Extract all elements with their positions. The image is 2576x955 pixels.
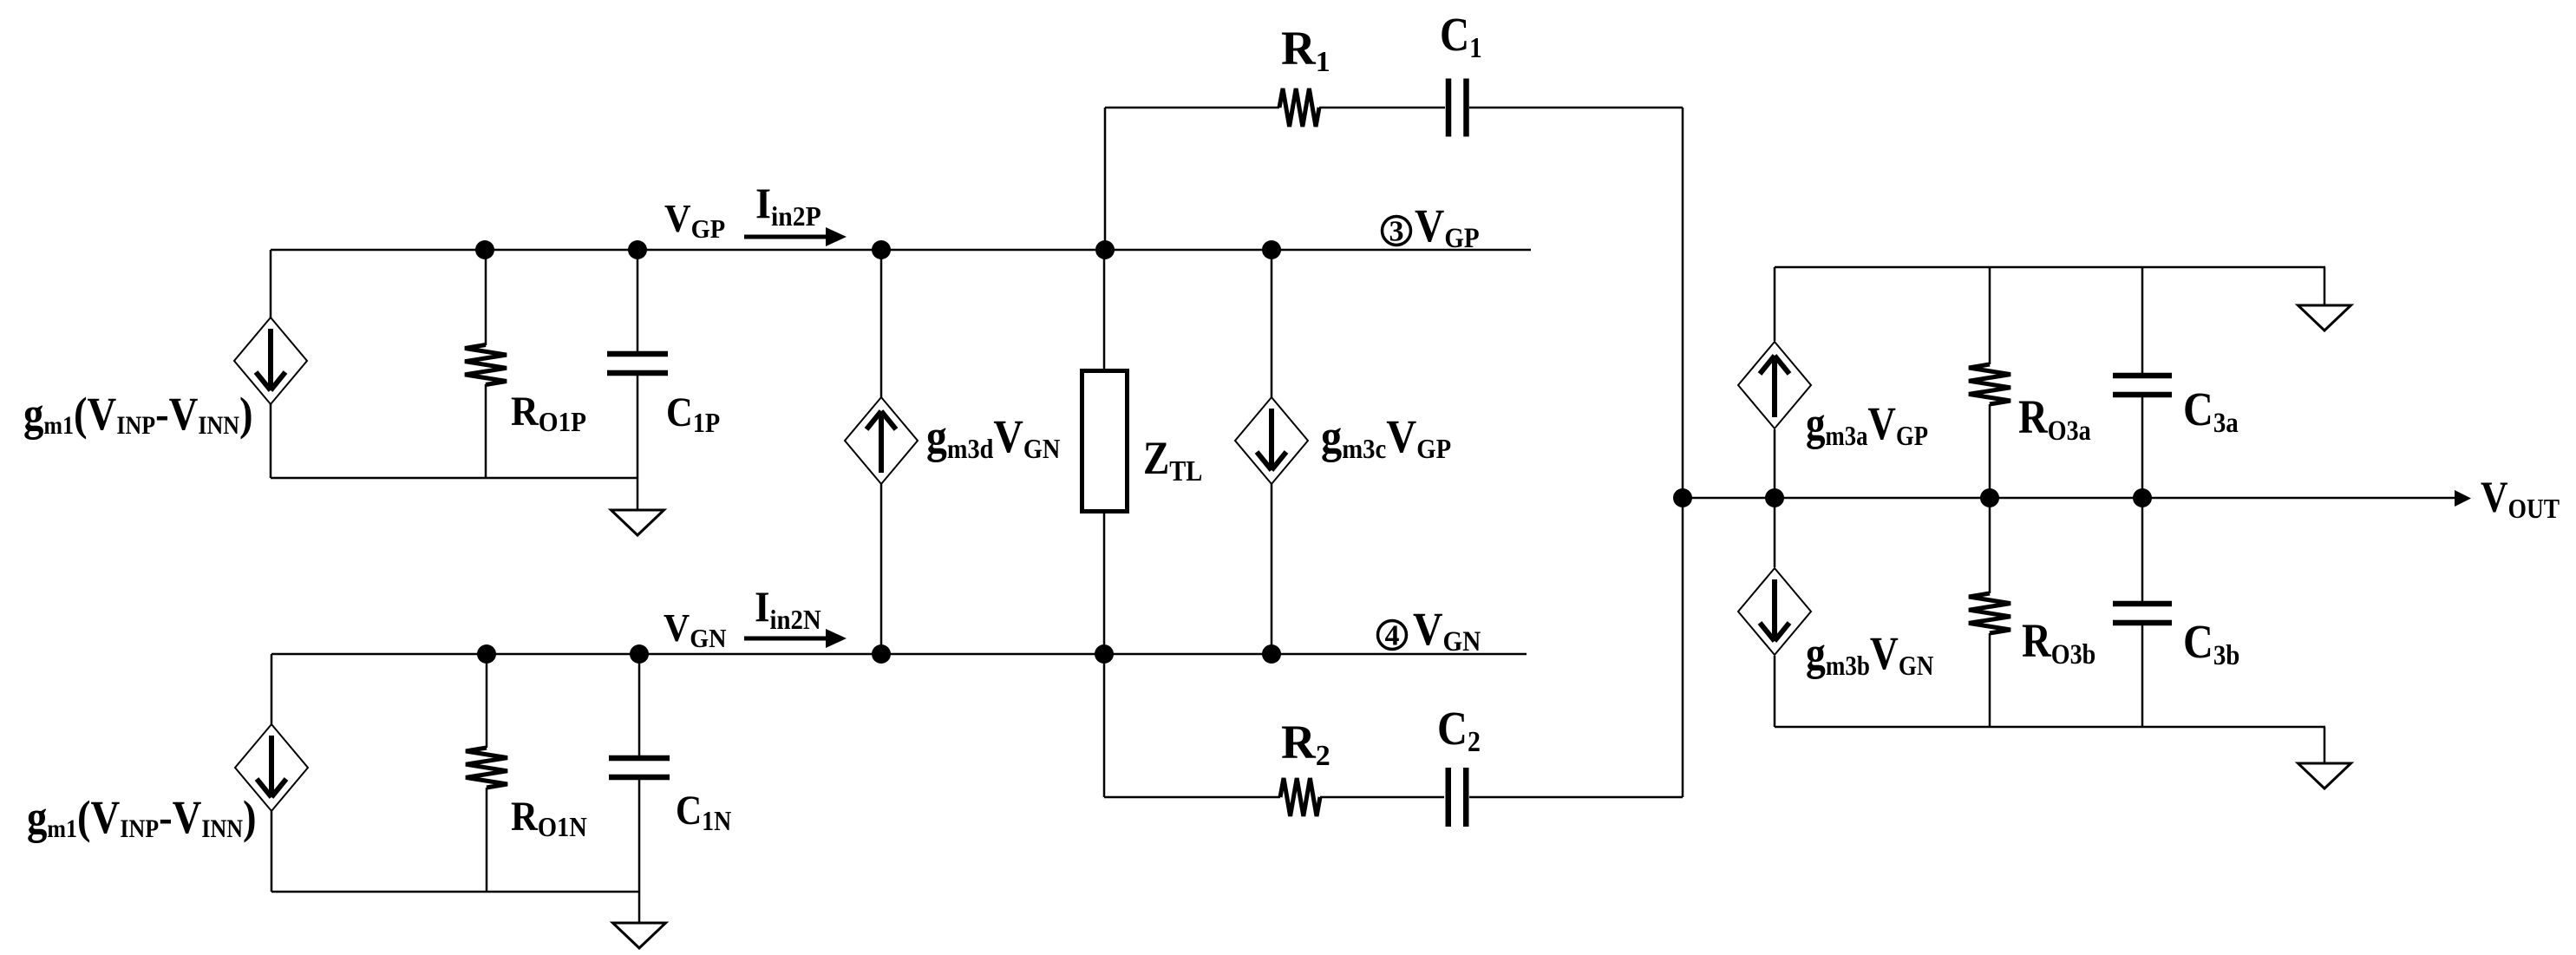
capacitor C_1P <box>607 351 668 357</box>
wire gm3d top lead <box>880 250 883 397</box>
svg-text:3: 3 <box>1389 216 1404 248</box>
node VGP/C_1P <box>628 240 647 259</box>
wire gm3c bottom lead <box>1271 484 1273 654</box>
wire bottom loop middle segment <box>1320 796 1444 799</box>
controlled current source G1 gm1(VINP-VINN) upper, arrow down <box>234 317 307 404</box>
wire R_O3b top lead <box>1989 498 1991 593</box>
label gm1(VINP-VINN) upper <box>23 388 253 441</box>
label gm3a*VGP <box>1806 397 1928 451</box>
node number 4 (circled) <box>1378 620 1407 652</box>
svg-text:4: 4 <box>1385 620 1400 652</box>
node VGN/Z_TL <box>1095 644 1114 664</box>
controlled current source G3 gm3d*VGN, arrow up <box>845 397 918 484</box>
label node V_GN <box>664 605 727 653</box>
label C_1P <box>666 389 720 439</box>
resistor R_O3b <box>1969 593 2010 633</box>
capacitor C2 <box>1446 768 1452 827</box>
ground under C_1P <box>611 478 664 535</box>
label gm1(VINP-VINN) lower <box>27 791 257 844</box>
resistor R_O3a <box>1969 364 2010 404</box>
wire upper gm1 bottom lead <box>270 404 272 478</box>
wire Z_TL bottom lead <box>1103 513 1106 654</box>
controlled current source G5 gm3a*VGP, arrow up <box>1738 342 1811 428</box>
ground under C_1N <box>613 892 666 948</box>
label C_3b <box>2183 616 2239 670</box>
wire C_3a top lead <box>2141 267 2144 373</box>
label R1 <box>1281 22 1330 78</box>
wire R_O1N top lead <box>486 654 488 748</box>
wire R_O3a top lead <box>1989 267 1991 364</box>
label R_O1N <box>511 794 587 843</box>
label node 4 V_GN <box>1413 604 1481 657</box>
wire C_1N bottom lead <box>638 780 641 892</box>
ground right top <box>2298 267 2351 330</box>
ground right bottom <box>2298 727 2351 788</box>
controlled current source G6 gm3b*VGN, arrow down <box>1738 568 1811 655</box>
node VOUT/C_3ab <box>2133 488 2152 507</box>
node VGN/C_1N <box>630 644 649 664</box>
wire bottom loop left segment <box>1104 796 1280 799</box>
wire R_O1N bottom lead <box>486 788 488 892</box>
resistor R_O1P <box>465 345 507 385</box>
controlled current source G2 gm1(VINP-VINN) lower, arrow down <box>235 724 308 811</box>
wire gm3b bottom lead <box>1774 656 1776 727</box>
label node 3 V_GP <box>1415 200 1480 253</box>
label V_OUT <box>2481 474 2560 525</box>
V_OUT arrowhead <box>2455 490 2471 507</box>
wire Z_TL top lead <box>1103 250 1106 369</box>
current flow arrow I_in2N <box>744 629 847 648</box>
wire V_GN net bottom horizontal <box>271 653 1527 656</box>
label node V_GP <box>664 196 725 244</box>
wire bottom loop right segment <box>1469 796 1683 799</box>
capacitor C_1N <box>609 755 670 762</box>
wire top loop left segment <box>1105 107 1279 109</box>
current flow arrow I_in2P <box>744 227 847 246</box>
wire C_1N top lead <box>638 654 641 755</box>
wire lower gm1 bottom lead <box>271 811 273 892</box>
node VOUT/gm3ab <box>1765 488 1784 507</box>
node VGN/gm3d <box>872 644 891 664</box>
wire top loop right segment <box>1469 107 1683 109</box>
label R_O3b <box>2022 616 2095 670</box>
resistor R1 <box>1279 88 1319 127</box>
wire C_1P bottom lead <box>637 376 639 478</box>
label R2 <box>1281 716 1330 772</box>
wire R_O1P top lead <box>485 250 487 345</box>
label I_in2P <box>755 180 821 232</box>
label Z_TL <box>1143 432 1202 487</box>
node VGN/R_O1N <box>477 644 496 664</box>
node VOUT/R_O3ab <box>1980 488 1999 507</box>
wire lower gm1 top lead <box>271 654 273 724</box>
capacitor C_3a <box>2113 373 2172 379</box>
wire gm3c top lead <box>1271 250 1273 397</box>
label I_in2N <box>755 584 821 635</box>
node VGP/R_O1P <box>475 240 494 259</box>
capacitor C1 <box>1446 79 1452 137</box>
wire gm3a bottom lead <box>1774 429 1776 498</box>
wire R_O3a bottom lead <box>1989 404 1991 498</box>
capacitor C_3b <box>2113 601 2172 607</box>
label C1 <box>1440 9 1482 64</box>
resistor R_O1N <box>466 748 507 788</box>
label gm3c*VGP <box>1321 411 1451 465</box>
wire gm3d bottom lead <box>880 484 883 654</box>
wire C_3a bottom lead <box>2141 397 2144 498</box>
wire V_GP net top horizontal <box>271 249 1531 252</box>
label C_3a <box>2183 383 2239 438</box>
node VGP/gm3d <box>872 240 891 259</box>
label R_O1P <box>511 388 586 437</box>
wire right block top rail <box>1775 266 2325 269</box>
wire C_1P top lead <box>637 250 639 351</box>
label gm3d*VGN <box>926 411 1061 464</box>
wire R_O3b bottom lead <box>1989 633 1991 727</box>
node VGP/gm3c <box>1262 240 1281 259</box>
wire upper gm1 top lead <box>270 250 272 317</box>
wire top loop middle segment <box>1319 107 1445 109</box>
wire upper block bottom rail <box>271 477 637 480</box>
wire C_3b bottom lead <box>2141 625 2144 727</box>
node VGP/Z_TL <box>1095 240 1115 259</box>
wire lower block bottom rail <box>271 891 639 893</box>
wire gm3b top lead <box>1774 498 1776 567</box>
wire bottom loop left vertical <box>1103 654 1106 797</box>
label C2 <box>1437 703 1481 757</box>
wire C_3b top lead <box>2141 498 2144 601</box>
controlled current source G4 gm3c*VGP, arrow down <box>1235 397 1308 484</box>
wire gm3a top lead <box>1774 267 1776 341</box>
label R_O3a <box>2018 392 2091 447</box>
node VOUT/loops <box>1673 488 1692 507</box>
wire top loop left vertical <box>1104 108 1107 250</box>
wire right long vertical <box>1682 108 1684 797</box>
impedance Z_TL <box>1082 371 1128 512</box>
resistor R2 <box>1280 778 1320 816</box>
label gm3b*VGN <box>1806 626 1933 681</box>
node VGN/gm3c <box>1262 644 1281 664</box>
node number 3 (circled) <box>1383 216 1411 248</box>
wire V_OUT horizontal <box>1683 497 2455 500</box>
wire R_O1P bottom lead <box>485 384 487 478</box>
label C_1N <box>676 787 731 836</box>
wire right block bottom rail <box>1775 726 2325 729</box>
